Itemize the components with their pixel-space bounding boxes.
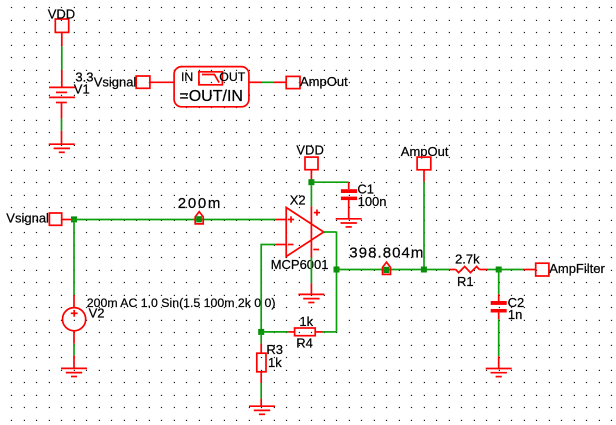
svg-text:MCP6001: MCP6001 (271, 257, 329, 272)
junction (AmpFilter node) (496, 267, 502, 273)
svg-text:1k: 1k (299, 314, 313, 329)
wire VDD box to junction (310, 170, 312, 180)
svg-text:200m: 200m (178, 195, 222, 212)
wire VDD node to C1 (311, 182, 348, 189)
wire VDD box to battery V1 (61, 32, 63, 87)
port AmpOut (top) (286, 74, 348, 89)
svg-text:VDD: VDD (296, 143, 323, 158)
svg-text:V1: V1 (74, 81, 90, 96)
wire R1 to AmpFilter junction (488, 269, 499, 271)
wire AmpOut port down to output run (423, 170, 425, 270)
svg-text:1k: 1k (268, 355, 282, 370)
svg-text:AmpFilter: AmpFilter (549, 261, 605, 276)
junction (output node) (334, 267, 340, 273)
resistor R4 (261, 328, 336, 336)
transfer-function block =OUT/IN (174, 67, 249, 107)
wire C1 to ground (348, 200, 350, 219)
port Vsignal (top) (94, 74, 150, 89)
ground (below V2) (61, 368, 87, 376)
ground (below R3) (249, 406, 275, 414)
probe marker (398.804m) (383, 262, 391, 274)
wire op-amp inverting input to feedback node (261, 244, 286, 332)
svg-text:Vsignal: Vsignal (94, 74, 137, 89)
svg-text:IN: IN (181, 70, 193, 84)
wire block to AmpOut port (249, 81, 286, 83)
svg-text:X2: X2 (290, 193, 306, 208)
junction (AmpOut node) (421, 267, 427, 273)
wire Vsignal node to op-amp + input (74, 219, 286, 221)
svg-text:AmpOut: AmpOut (300, 74, 348, 89)
wire op-amp output elbow (324, 232, 337, 332)
wire VDD node down through op-amp to V- pin (310, 185, 312, 294)
svg-text:2.7k: 2.7k (455, 252, 480, 267)
probe marker (200m) (195, 212, 203, 224)
svg-text:=OUT/IN: =OUT/IN (179, 88, 243, 105)
svg-text:VDD: VDD (48, 6, 75, 21)
power symbol VDD (top left) (48, 6, 75, 32)
power symbol VDD (above op-amp) (296, 143, 323, 170)
junction (feedback node) (258, 329, 264, 335)
svg-text:398.804m: 398.804m (349, 245, 424, 262)
resistor R3 (257, 332, 266, 406)
svg-text:200m AC 1.0 Sin(1.5 100m 2k 0: 200m AC 1.0 Sin(1.5 100m 2k 0 0) (87, 296, 276, 310)
ground (below op-amp) (298, 294, 324, 302)
port Vsignal (middle left) (6, 210, 61, 225)
op-amp X2 (286, 208, 324, 257)
wire battery V1 to ground (61, 103, 63, 145)
wire Vsignal port to block (150, 81, 174, 83)
ground (below C1) (336, 219, 362, 227)
capacitor C2 (491, 301, 507, 313)
ground (below C2) (486, 369, 512, 377)
wire Vsignal node down to V2 (73, 220, 75, 309)
resistor R1 (449, 267, 488, 273)
battery V1 (49, 87, 75, 102)
svg-text:OUT: OUT (219, 70, 245, 84)
svg-text:1n: 1n (508, 307, 522, 322)
capacitor C1 (341, 189, 357, 200)
wire junction to AmpFilter port (499, 269, 536, 271)
junction (VDD node) (308, 179, 314, 185)
wire C2 to ground (498, 313, 500, 369)
wire output node to AmpFilter run (337, 269, 450, 271)
source V2 (63, 308, 86, 331)
svg-text:R1: R1 (457, 274, 474, 289)
port AmpOut (right) (401, 144, 449, 170)
wire Vsignal port to junction (62, 219, 74, 221)
svg-text:V2: V2 (89, 306, 105, 321)
wire AmpFilter node down to C2 (498, 270, 500, 302)
junction (Vsignal node) (71, 216, 77, 222)
port AmpFilter (536, 261, 606, 276)
wire V2 to ground (73, 331, 75, 369)
svg-text:100n: 100n (358, 194, 387, 209)
ground (below V1) (49, 144, 75, 152)
svg-text:Vsignal: Vsignal (6, 210, 49, 225)
svg-text:R4: R4 (296, 335, 313, 350)
